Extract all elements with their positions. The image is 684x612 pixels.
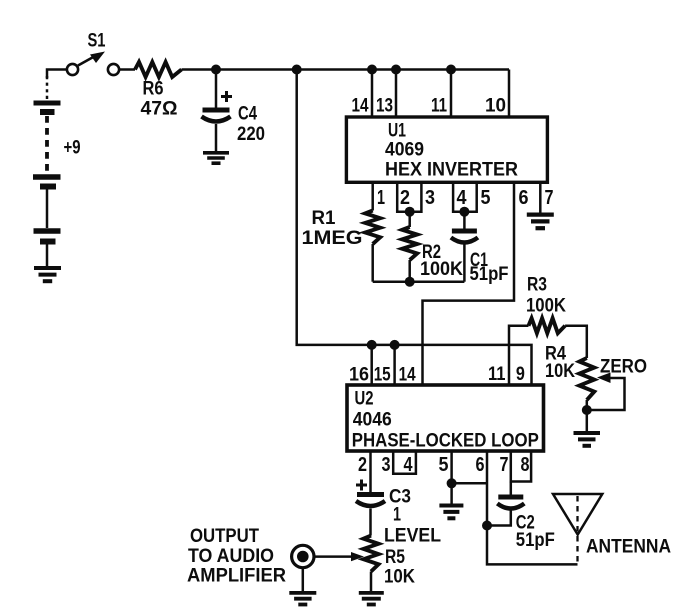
node supply branch junction xyxy=(292,65,302,75)
svg-text:13: 13 xyxy=(376,96,393,117)
svg-text:9: 9 xyxy=(516,364,525,385)
svg-text:R5: R5 xyxy=(385,547,405,568)
S1 label xyxy=(88,31,106,52)
51pF value C2 xyxy=(516,530,555,551)
HEX INVERTER label xyxy=(385,160,518,181)
wire bottom rail R1-R2-C1 xyxy=(373,280,465,283)
4046 label xyxy=(353,410,392,431)
op-amp U1 4069 hex inverter box xyxy=(346,117,547,182)
1MEG value xyxy=(302,228,363,249)
wire R1 to rail xyxy=(371,244,374,282)
R2 label xyxy=(422,242,441,263)
node pin14 junction xyxy=(367,65,377,75)
wire U2 pin16 xyxy=(370,345,373,385)
wire top rail from switch to R6 xyxy=(119,68,135,71)
wire R5 to ground xyxy=(370,572,373,592)
capacitor C1 xyxy=(451,212,478,282)
ground U2 pin5 xyxy=(439,506,463,519)
svg-text:7: 7 xyxy=(500,454,509,476)
pin number 9 xyxy=(516,364,525,385)
svg-text:3: 3 xyxy=(425,187,435,209)
wire U1 pins 4-5 xyxy=(453,182,477,212)
TO AUDIO label xyxy=(188,546,274,567)
OUTPUT label xyxy=(190,526,259,547)
wire top rail R6 to pin10 corner xyxy=(182,68,510,71)
svg-text:AMPLIFIER: AMPLIFIER xyxy=(187,565,286,586)
wire supply branch down to U2 xyxy=(297,70,532,386)
wire pin5 to pin6 xyxy=(452,482,487,485)
ground U1 pin7 xyxy=(527,215,554,229)
wire U1 pin13 xyxy=(395,70,398,118)
svg-text:8: 8 xyxy=(521,454,530,476)
svg-text:+9: +9 xyxy=(64,138,81,159)
svg-text:R3: R3 xyxy=(527,275,547,296)
svg-text:S1: S1 xyxy=(88,31,106,52)
pin number 4 xyxy=(457,187,468,209)
potentiometer R4 xyxy=(579,358,594,400)
wire U1 pin7 xyxy=(539,182,542,213)
svg-text:51pF: 51pF xyxy=(470,264,509,285)
pin number 11 U2 xyxy=(488,364,506,385)
svg-text:10K: 10K xyxy=(545,361,575,382)
wire U1 pin1 xyxy=(371,182,374,211)
svg-text:100K: 100K xyxy=(526,295,566,316)
ground jack xyxy=(289,593,316,605)
C4 label xyxy=(238,104,257,125)
wire U2 pin5 xyxy=(450,451,453,504)
capacitor C4 plus sign xyxy=(221,91,232,102)
ground R4 xyxy=(574,433,601,446)
svg-text:7: 7 xyxy=(545,187,554,209)
wire U2 pin6 to antenna xyxy=(487,451,578,564)
node pin11 junction xyxy=(446,65,456,75)
node pin13 junction xyxy=(391,65,401,75)
pin number 7 U2 xyxy=(500,454,509,476)
U1 label xyxy=(388,120,406,141)
node pin15 junction xyxy=(390,340,400,350)
node C1 top junction xyxy=(459,207,469,217)
svg-text:1: 1 xyxy=(393,505,401,526)
ANTENNA label xyxy=(586,536,671,557)
wire R3 right to R4 xyxy=(565,326,587,358)
pin number 15 xyxy=(374,365,391,386)
node C4 junction xyxy=(211,65,221,75)
10K value R4 xyxy=(545,361,575,382)
svg-text:R6: R6 xyxy=(143,79,164,100)
PHASE-LOCKED LOOP label xyxy=(352,431,539,452)
svg-text:2: 2 xyxy=(400,187,410,209)
capacitor C3 xyxy=(356,495,385,536)
100K value R2 xyxy=(420,259,463,280)
pin number 2 xyxy=(400,187,410,209)
potentiometer R5 xyxy=(364,536,379,572)
wire U1 pin6 to U2 pin14 xyxy=(423,182,515,385)
LEVEL label xyxy=(384,526,441,547)
ground R5 xyxy=(359,593,384,605)
resistor R1 xyxy=(365,211,380,245)
svg-text:ANTENNA: ANTENNA xyxy=(586,536,671,557)
+9 label xyxy=(64,138,81,159)
pin number 8 xyxy=(521,454,530,476)
R4 label xyxy=(545,344,566,365)
svg-text:6: 6 xyxy=(519,187,529,209)
R1 label xyxy=(312,208,336,229)
wire jack wiper arrow to R5 xyxy=(315,552,365,561)
51pF value C1 xyxy=(470,264,509,285)
100K value R3 xyxy=(526,295,566,316)
pin number 4 U2 xyxy=(404,454,414,476)
ground battery xyxy=(34,268,61,281)
pin number 10 xyxy=(485,96,506,117)
capacitor C4 xyxy=(202,110,231,151)
wire battery top to switch xyxy=(47,70,67,101)
svg-text:2: 2 xyxy=(358,454,367,476)
svg-text:51pF: 51pF xyxy=(516,530,555,551)
svg-text:3: 3 xyxy=(382,454,391,476)
wire U1 pin11 xyxy=(450,70,453,118)
svg-text:PHASE-LOCKED LOOP: PHASE-LOCKED LOOP xyxy=(352,431,539,452)
svg-text:10: 10 xyxy=(485,96,506,117)
node pin5 junction xyxy=(447,478,457,488)
wire U2 pins 3-4 link xyxy=(393,451,416,474)
wire U2 pins 7-8 link xyxy=(511,451,531,482)
pin number 14 U2 xyxy=(399,365,416,386)
svg-text:HEX INVERTER: HEX INVERTER xyxy=(385,160,518,181)
wire jack to ground xyxy=(302,568,305,592)
svg-text:TO AUDIO: TO AUDIO xyxy=(188,546,274,567)
pin number 1 xyxy=(377,187,385,209)
svg-text:4046: 4046 xyxy=(353,410,392,431)
capacitor C3 plus sign xyxy=(356,480,367,491)
svg-text:15: 15 xyxy=(374,365,391,386)
svg-text:R1: R1 xyxy=(312,208,336,229)
220 value xyxy=(237,124,265,145)
wire R4 to ground xyxy=(586,400,589,431)
pin number 5 U2 xyxy=(439,454,449,476)
pin number 6 U2 xyxy=(476,454,485,476)
pin number 13 xyxy=(376,96,393,117)
AMPLIFIER label xyxy=(187,565,286,586)
pin number 14 xyxy=(352,96,369,117)
wire U2 pin15 xyxy=(393,345,396,385)
connector J1 output jack xyxy=(292,545,314,567)
svg-text:10K: 10K xyxy=(384,567,415,588)
svg-text:C4: C4 xyxy=(238,104,257,125)
pin number 5 xyxy=(481,187,491,209)
svg-text:U2: U2 xyxy=(355,389,374,410)
pin number 3 xyxy=(425,187,435,209)
resistor R3 xyxy=(529,318,566,333)
antenna symbol xyxy=(553,494,602,563)
svg-text:OUTPUT: OUTPUT xyxy=(190,526,259,547)
resistor R6 xyxy=(135,62,182,77)
op-amp U2 4046 phase-locked loop box xyxy=(347,385,544,451)
switch S1 xyxy=(67,52,119,76)
resistor R2 xyxy=(402,212,417,282)
R5 label xyxy=(385,547,405,568)
wire R3 left xyxy=(509,326,529,385)
pin number 7 xyxy=(545,187,554,209)
svg-text:U1: U1 xyxy=(388,120,406,141)
svg-text:6: 6 xyxy=(476,454,485,476)
wire U1 pin14 xyxy=(371,70,374,118)
4069 label xyxy=(385,140,424,161)
pin number 16 xyxy=(349,365,369,386)
svg-text:1: 1 xyxy=(377,187,385,209)
svg-text:1MEG: 1MEG xyxy=(302,228,363,249)
ZERO label xyxy=(600,357,647,378)
svg-text:220: 220 xyxy=(237,124,265,145)
pin number 2 U2 xyxy=(358,454,367,476)
C2 label xyxy=(516,513,535,534)
svg-text:4069: 4069 xyxy=(385,140,424,161)
R3 label xyxy=(527,275,547,296)
svg-text:47Ω: 47Ω xyxy=(141,99,178,120)
node pin16 junction xyxy=(367,340,377,350)
47ohm value xyxy=(141,99,178,120)
U2 label xyxy=(355,389,374,410)
wire U1 pins 2-3 xyxy=(397,182,421,212)
wire R4 wiper loop xyxy=(587,378,625,410)
10K value R5 xyxy=(384,567,415,588)
C3 label xyxy=(389,487,411,508)
svg-text:16: 16 xyxy=(349,365,369,386)
C1 label xyxy=(470,250,488,271)
svg-text:ZERO: ZERO xyxy=(600,357,647,378)
R6 label xyxy=(143,79,164,100)
svg-text:14: 14 xyxy=(399,365,416,386)
wire U2 pin2 xyxy=(369,451,372,492)
svg-text:11: 11 xyxy=(488,364,506,385)
wire U1 pin10 xyxy=(508,70,511,118)
wire C4 lead xyxy=(215,70,218,109)
node R4 bottom junction xyxy=(582,405,592,415)
R4 wiper arrow xyxy=(597,373,611,384)
svg-text:LEVEL: LEVEL xyxy=(384,526,441,547)
node C2 junction xyxy=(482,521,492,531)
svg-text:5: 5 xyxy=(481,187,491,209)
svg-text:5: 5 xyxy=(439,454,449,476)
ground C4 xyxy=(203,153,229,163)
pin number 6 xyxy=(519,187,529,209)
svg-text:4: 4 xyxy=(457,187,468,209)
node R2 top junction xyxy=(405,207,415,217)
node R2 bottom junction xyxy=(405,277,415,287)
svg-text:11: 11 xyxy=(431,96,447,117)
svg-text:14: 14 xyxy=(352,96,369,117)
svg-text:100K: 100K xyxy=(420,259,463,280)
battery B1 +9V xyxy=(33,103,61,266)
value 1 C3 xyxy=(393,505,401,526)
capacitor C2 xyxy=(487,482,524,526)
pin number 3 U2 xyxy=(382,454,391,476)
pin number 11 xyxy=(431,96,447,117)
